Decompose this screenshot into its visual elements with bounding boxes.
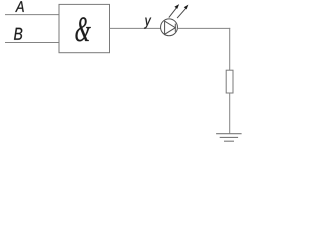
node B label bbox=[14, 28, 22, 40]
LED D1 light emission arrow 2 bbox=[177, 5, 188, 19]
AND gate U1 body bbox=[59, 4, 110, 52]
wire resistor to ground bbox=[229, 93, 231, 134]
LED D1 light emission arrow 1 bbox=[169, 4, 179, 18]
node A label bbox=[15, 1, 24, 12]
wire corner down to resistor bbox=[229, 28, 231, 70]
wire input A bbox=[5, 14, 59, 16]
wire from LED to corner bbox=[177, 27, 230, 29]
wire input B bbox=[5, 42, 59, 44]
node y label bbox=[144, 18, 151, 29]
AND gate U1 ampersand symbol bbox=[75, 17, 90, 41]
LED D1 circle bbox=[161, 19, 178, 36]
wire output from gate to LED bbox=[110, 27, 161, 29]
resistor R1 body bbox=[226, 70, 233, 93]
ground symbol bbox=[216, 134, 242, 142]
LED D1 cathode bar bbox=[174, 24, 176, 32]
LED D1 diode triangle bbox=[165, 21, 176, 34]
